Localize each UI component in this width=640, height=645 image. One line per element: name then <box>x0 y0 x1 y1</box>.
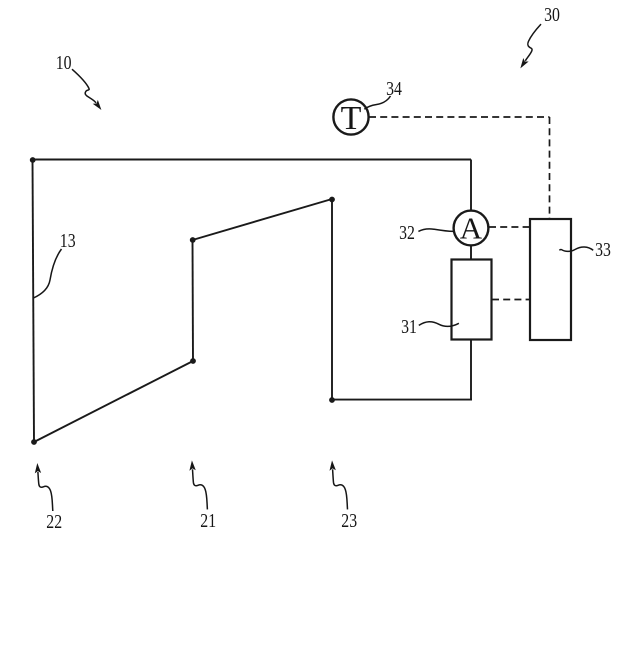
dashed link: vertical run down to box 33 <box>549 117 551 218</box>
junction dot bottom-left (node 22) <box>31 439 37 445</box>
svg-text:10: 10 <box>56 52 72 74</box>
leader line for 13 <box>33 249 62 298</box>
wire: lower diagonal <box>34 361 193 442</box>
junction dot lower middle (node 21 bottom) <box>190 358 196 364</box>
leader arrow for 10 <box>72 69 96 103</box>
wire: right vertical down to ammeter <box>470 160 472 212</box>
svg-text:32: 32 <box>399 222 415 244</box>
leader arrow for 30 <box>525 24 541 61</box>
ammeter A (32) <box>454 211 489 246</box>
junction dot upper middle (node 21 top) <box>190 237 196 243</box>
leader arrow for 23 <box>333 469 348 509</box>
junction dot top-left <box>30 157 36 163</box>
svg-text:A: A <box>460 211 483 246</box>
dashed link: T to vertical run <box>369 116 550 118</box>
leader line for 33 <box>559 247 593 251</box>
leader line for 34 <box>364 96 390 109</box>
leader line for 32 <box>418 229 453 232</box>
leader arrow for 21 <box>193 469 208 509</box>
svg-text:33: 33 <box>595 239 611 261</box>
dashed link: box 31 to box 33 <box>492 299 530 301</box>
wire: ammeter to box 31 <box>470 245 472 260</box>
box 33 (controller) <box>530 219 571 340</box>
thermometer T (34) <box>333 99 368 137</box>
svg-text:13: 13 <box>60 230 76 252</box>
box 31 (converter) <box>452 260 492 340</box>
svg-text:30: 30 <box>544 4 560 26</box>
wire: top horizontal (node 13 top) <box>33 159 472 161</box>
svg-text:34: 34 <box>386 78 402 100</box>
junction dot top of middle vertical <box>329 197 335 203</box>
svg-text:23: 23 <box>341 510 357 532</box>
svg-text:T: T <box>341 100 362 137</box>
svg-text:22: 22 <box>46 511 62 533</box>
svg-text:31: 31 <box>401 316 417 338</box>
dashed link: ammeter A to box 33 <box>489 226 530 228</box>
wire: middle vertical (node 23) <box>331 199 333 400</box>
wire: left vertical (node 22 side) <box>33 160 35 443</box>
leader line for 31 <box>419 322 459 327</box>
junction dot bottom middle (node 23) <box>329 397 335 403</box>
wire: box 31 down to bottom wire <box>470 339 472 401</box>
wire: bottom horizontal <box>332 399 472 401</box>
wire: middle short vertical (node 21) <box>192 240 195 361</box>
leader arrow for 22 <box>38 472 53 511</box>
svg-text:21: 21 <box>200 510 216 532</box>
wire: upper diagonal <box>193 199 333 240</box>
